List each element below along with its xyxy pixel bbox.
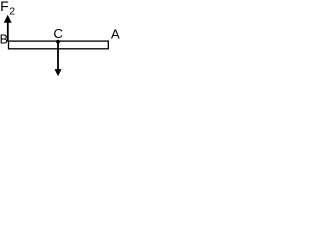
force arrow F2 (upward at B) bbox=[4, 15, 12, 42]
beam (lever bar) bbox=[9, 41, 109, 49]
svg-text:B: B bbox=[0, 32, 8, 46]
weight arrow (downward at C) bbox=[55, 42, 62, 77]
svg-text:2: 2 bbox=[9, 6, 15, 18]
label F2 (force at B) bbox=[0, 0, 15, 18]
svg-text:F: F bbox=[0, 0, 9, 14]
fulcrum dot at C bbox=[56, 40, 60, 44]
svg-text:A: A bbox=[111, 27, 120, 42]
svg-text:C: C bbox=[53, 26, 63, 41]
background bbox=[0, 0, 121, 78]
